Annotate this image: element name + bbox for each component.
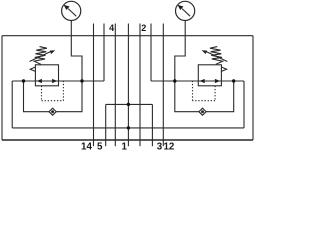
wire: right check-valve branch	[175, 81, 234, 112]
svg-text:3: 3	[157, 142, 163, 153]
svg-text:5: 5	[97, 142, 103, 153]
port line 4	[103, 24, 105, 82]
port line 5-branch left	[105, 104, 107, 146]
wire: left supply drop from flow line to supply bus	[11, 81, 13, 128]
pilot dashed line U2	[193, 81, 216, 101]
wire: right flow line y81	[151, 80, 244, 82]
flow arrowhead U1 right	[52, 79, 57, 83]
node: flow/gauge/bypass junction right	[173, 79, 176, 82]
enclosure border	[2, 36, 253, 140]
svg-text:4: 4	[109, 23, 114, 33]
pressure gauge G2	[176, 1, 195, 20]
node: supply/port1 junction	[127, 126, 130, 129]
relief vent triangle U1	[30, 67, 35, 71]
port line pass-through A	[114, 24, 116, 147]
node: flow/check junction left outer	[22, 79, 25, 82]
port line 12	[162, 24, 164, 147]
port line 2	[150, 24, 152, 82]
node: flow/gauge/bypass junction left	[80, 79, 83, 82]
regulator U1 body	[35, 65, 58, 86]
adjustment arrow U2	[202, 50, 228, 61]
node: bus/port1 junction	[127, 103, 130, 106]
wire: left gauge stem	[71, 20, 82, 81]
svg-text:12: 12	[163, 142, 174, 153]
spring U1	[34, 47, 47, 65]
port line 3-branch right	[151, 104, 153, 146]
svg-text:2: 2	[141, 23, 146, 33]
wire: right supply drop	[243, 81, 245, 128]
port line 1	[127, 24, 129, 147]
flow arrowhead U1 left	[37, 79, 42, 83]
port line 14	[93, 24, 95, 147]
adjustment arrow U1	[30, 50, 56, 61]
check valve V1	[49, 108, 56, 115]
flow arrowhead U2 right	[215, 79, 220, 83]
pilot dashed line U1	[42, 81, 64, 101]
regulator U2 body	[198, 65, 221, 86]
check valve V2	[199, 108, 206, 115]
flow arrowhead U2 left	[200, 79, 205, 83]
wire: supply bus y128	[12, 127, 244, 129]
wire: right gauge stem	[175, 20, 185, 81]
relief vent triangle U2	[221, 67, 226, 71]
svg-text:1: 1	[121, 142, 127, 153]
svg-text:14: 14	[81, 142, 92, 153]
pressure gauge G1	[62, 1, 81, 20]
port line pass-through B	[139, 24, 141, 147]
spring U2	[210, 47, 223, 65]
wire: left flow line y81	[12, 80, 104, 82]
wire: left check-valve branch	[24, 81, 83, 112]
node: flow/check junction right outer	[232, 79, 235, 82]
wire: center bus y104.4	[106, 103, 153, 105]
